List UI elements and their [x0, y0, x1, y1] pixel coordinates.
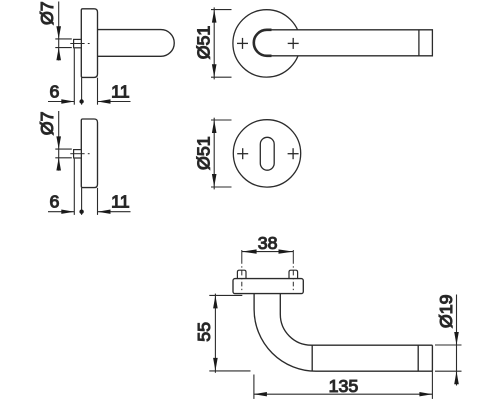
- dim Ø51 (view3) arrowheads: [212, 10, 217, 23]
- dim 11 (view1) arrowhead: [98, 99, 111, 103]
- dim Ø51 (view3) dimension line: [213, 7, 215, 79]
- bar end line: [431, 345, 433, 371]
- svg-text:Ø51: Ø51: [194, 136, 214, 170]
- dim 6/11 (view1) dimension lines: [48, 101, 74, 103]
- svg-text:11: 11: [111, 192, 130, 212]
- rosette body (side view): [81, 119, 97, 188]
- svg-text:11: 11: [111, 81, 130, 101]
- rose plate: [233, 279, 303, 294]
- dim Ø7 (view2) extension lines: [55, 148, 72, 150]
- left screw cross mark: [237, 42, 248, 44]
- dim 38 arrowheads: [242, 249, 257, 253]
- lever neck thick cap arc: [254, 30, 272, 56]
- dim 6/11 (view2) extension lines: [73, 159, 75, 215]
- keyhole slot: [260, 137, 274, 170]
- rosette body (side view): [81, 9, 97, 78]
- dim 55 arrowheads: [213, 295, 218, 308]
- grip seam line near bend: [311, 345, 313, 371]
- lever inner contour (neck, bend, bar top): [280, 294, 432, 345]
- dim 55 extension lines: [209, 294, 242, 296]
- left fixing screw: [237, 270, 246, 278]
- dim 38 dimension line: [242, 251, 293, 253]
- dim Ø7 (view1) arrowheads: [56, 26, 61, 39]
- svg-text:Ø7: Ø7: [37, 1, 57, 25]
- dim 11 (view2) arrowhead: [98, 210, 111, 214]
- left screw cross mark: [237, 153, 248, 155]
- dim Ø7 (view1) extension lines: [55, 38, 72, 40]
- spindle pin: [74, 150, 82, 158]
- dim 6/11 (view1) origin dot: [79, 99, 83, 103]
- bar end seam line: [418, 30, 420, 56]
- grip seam line near end: [417, 345, 419, 371]
- dim Ø51 (view4) dimension line: [213, 118, 215, 190]
- dim Ø51 (view4) extension lines: [211, 119, 232, 121]
- dim Ø19 arrowheads: [454, 332, 459, 345]
- svg-text:55: 55: [194, 322, 214, 342]
- dim Ø51 (view3) extension lines: [211, 9, 232, 11]
- dim 135 arrowheads: [254, 392, 267, 396]
- dim Ø51 (view4) arrowheads: [212, 120, 217, 133]
- rosette circle: [233, 10, 300, 77]
- svg-text:38: 38: [258, 233, 278, 253]
- left screw centerline (dash-dot): [241, 250, 243, 290]
- dim 6 (view1) arrowhead: [61, 99, 74, 103]
- svg-text:Ø19: Ø19: [436, 294, 456, 328]
- handle grip stub (side view, rounded cap): [98, 30, 174, 57]
- lever outer contour (neck, bend, bar bottom): [254, 294, 432, 371]
- rosette circle: [233, 120, 300, 187]
- dim 6/11 (view2) dimension lines: [48, 211, 74, 213]
- svg-text:6: 6: [50, 81, 60, 101]
- dim 6 (view2) arrowhead: [61, 210, 74, 214]
- right screw centerline (dash-dot): [292, 250, 294, 290]
- dim Ø7 (view1) dimension line: [58, 2, 60, 61]
- dim Ø19 extension lines: [435, 344, 462, 346]
- right screw cross mark: [288, 42, 299, 44]
- pin centerline (dash-dot): [70, 43, 84, 45]
- dim 6/11 (view1) extension lines: [73, 48, 75, 104]
- dim Ø7 (view2) arrowheads: [56, 136, 61, 149]
- dim 135 dimension line: [254, 393, 433, 395]
- lever neck + bar (front view): [254, 30, 433, 56]
- dim Ø19 dimension line: [456, 295, 458, 386]
- dim 6/11 (view2) origin dot: [79, 210, 83, 214]
- spindle pin: [74, 39, 82, 47]
- svg-text:Ø7: Ø7: [37, 112, 57, 136]
- right fixing screw: [289, 270, 298, 278]
- right screw cross mark: [288, 153, 299, 155]
- svg-text:135: 135: [329, 376, 359, 396]
- svg-text:Ø51: Ø51: [194, 26, 214, 60]
- dim 55 dimension line: [214, 294, 216, 373]
- dim 135 extension lines: [253, 375, 255, 399]
- svg-text:6: 6: [50, 192, 60, 212]
- pin centerline (dash-dot): [70, 153, 84, 155]
- dim Ø7 (view2) dimension line: [58, 111, 60, 171]
